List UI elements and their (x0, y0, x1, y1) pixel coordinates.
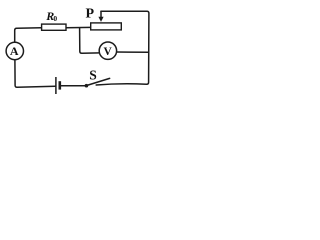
wire: battery to switch (61, 85, 86, 87)
voltmeter V (99, 42, 116, 59)
svg-text:P: P (86, 6, 95, 21)
wire: switch right contact to bottom-right corner and right vertical up (96, 11, 149, 85)
wire: left vertical below ammeter + bottom-left corner to battery (15, 60, 55, 88)
switch S pivot dot (85, 84, 89, 88)
ammeter A (6, 42, 23, 59)
wire: slider arrow stem of potentiometer (100, 11, 102, 17)
svg-text:0: 0 (53, 14, 57, 23)
battery cell: short thick plate (negative) (58, 81, 61, 89)
svg-text:V: V (104, 46, 113, 58)
svg-text:S: S (89, 68, 97, 83)
svg-text:A: A (10, 44, 19, 58)
resistor R0 (box) (42, 24, 66, 30)
wire: left vertical upper + top-left corner to resistor R0 (15, 28, 42, 43)
potentiometer slider arrowhead (98, 17, 103, 22)
wire: voltmeter to right vertical wire (117, 51, 149, 53)
switch S lever (87, 78, 110, 85)
wire: top wire between resistor R0 and potentiometer body (66, 26, 90, 28)
wire: voltmeter branch (junction drop and corner to voltmeter) (80, 28, 100, 54)
potentiometer P body (box) (91, 23, 122, 30)
battery cell: long plate (positive) (55, 77, 57, 94)
